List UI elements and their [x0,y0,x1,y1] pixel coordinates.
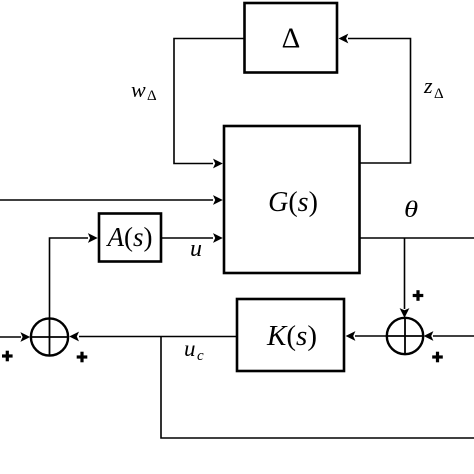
svg-text:Δ: Δ [147,88,157,104]
label w_Delta [131,77,157,104]
svg-text:u: u [190,236,202,262]
plus sign for S1 right input [77,352,88,363]
wire u_c: K(s) output to S1 [69,332,237,342]
summing junction S1 (left) [31,318,68,355]
svg-text:A(s): A(s) [105,222,152,252]
svg-text:K(s): K(s) [266,320,317,352]
wire theta: G output to right edge [360,237,474,239]
wire S1 output up to A(s) input [50,233,98,319]
block K(s) controller [237,299,344,371]
wire w_Delta: Delta output to G input [174,39,244,169]
plus sign for S2 right input [432,352,443,363]
block A(s) actuator [99,214,161,262]
plus sign for S1 left input [2,351,13,362]
wire theta branch down to S2 [400,238,410,318]
svg-text:θ: θ [404,197,418,223]
svg-text:c: c [197,348,204,364]
svg-text:w: w [131,77,146,102]
wire external input from right to S2 [424,331,474,341]
svg-text:z: z [423,73,433,98]
label u_c [184,336,204,364]
summing junction S2 (right) [387,318,423,354]
block U1 Delta (uncertainty) [245,3,338,73]
wire u_c branch down and right to edge [161,337,474,439]
plus sign for S2 top input [413,290,424,301]
svg-text:u: u [184,336,196,361]
label theta [404,197,418,223]
svg-text:Δ: Δ [282,23,301,55]
svg-text:Δ: Δ [434,86,444,102]
label z_Delta [423,73,444,102]
block G(s) plant [224,126,360,273]
wire z_Delta: G output to Delta input [339,34,411,163]
wire external input to G (middle) [0,195,223,205]
wire u: A(s) output to G input [161,233,223,243]
label u [190,236,202,262]
wire S2 output to K(s) input [346,331,387,341]
wire external input from left to S1 [0,332,30,342]
svg-text:G(s): G(s) [268,187,318,218]
